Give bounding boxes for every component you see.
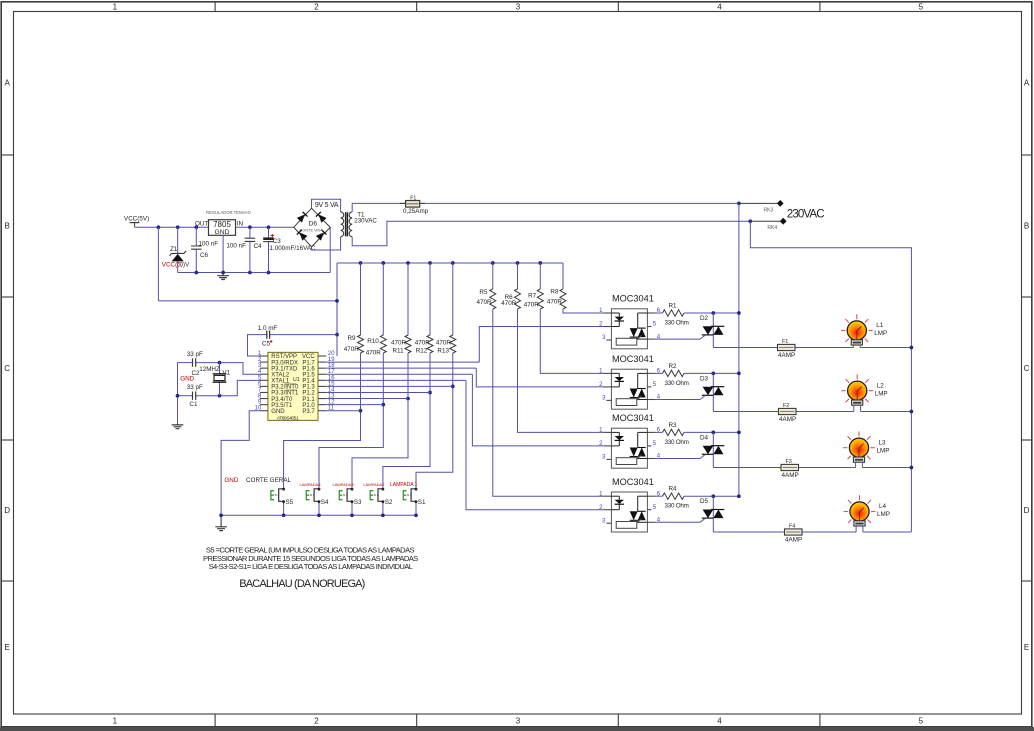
svg-text:L2: L2 (877, 382, 885, 389)
svg-text:330 Ohm: 330 Ohm (665, 439, 689, 446)
svg-text:MOC3041: MOC3041 (612, 354, 654, 364)
svg-text:D: D (4, 506, 10, 515)
svg-text:LAMPADA 1: LAMPADA 1 (390, 482, 418, 488)
svg-text:4AMP: 4AMP (782, 472, 799, 479)
svg-text:RK4: RK4 (767, 225, 777, 231)
svg-text:230VAC: 230VAC (787, 207, 824, 220)
svg-text:LAMPADA3: LAMPADA3 (333, 482, 355, 487)
svg-text:GND: GND (214, 229, 229, 236)
svg-text:GND: GND (271, 409, 285, 415)
svg-text:33 pF: 33 pF (187, 351, 203, 358)
svg-text:GND: GND (224, 477, 238, 484)
svg-text:C: C (4, 364, 10, 373)
svg-text:470R: 470R (524, 301, 540, 308)
svg-text:B: B (1024, 222, 1029, 231)
svg-text:F1: F1 (410, 195, 416, 201)
svg-text:D3: D3 (700, 375, 709, 382)
svg-text:330 Ohm: 330 Ohm (665, 320, 689, 327)
svg-text:4: 4 (717, 717, 722, 726)
svg-text:F4: F4 (789, 524, 795, 530)
svg-text:LAMPADA4: LAMPADA4 (300, 482, 322, 487)
svg-text:U1: U1 (293, 377, 300, 383)
svg-text:5: 5 (919, 2, 924, 11)
svg-text:F3: F3 (786, 459, 792, 465)
svg-text:S2: S2 (385, 499, 393, 506)
svg-text:1: 1 (113, 2, 118, 11)
svg-text:R1: R1 (669, 302, 678, 309)
svg-text:2: 2 (314, 717, 319, 726)
svg-text:100 nF: 100 nF (226, 243, 246, 250)
svg-text:100 nF: 100 nF (199, 240, 219, 247)
svg-text:E: E (5, 643, 10, 652)
svg-text:LAMPADA2: LAMPADA2 (363, 482, 385, 487)
svg-text:9V 5 VA: 9V 5 VA (315, 202, 339, 209)
svg-text:0)V: 0)V (180, 261, 191, 268)
svg-text:S5: S5 (285, 499, 293, 506)
svg-text:470R: 470R (344, 346, 360, 353)
svg-text:S4-S3-S2-S1= LIGA E DESLIGA TO: S4-S3-S2-S1= LIGA E DESLIGA TODAS AS LAM… (209, 562, 413, 571)
svg-text:PONTE W04: PONTE W04 (299, 228, 323, 233)
svg-text:B: B (5, 222, 10, 231)
svg-text:4AMP: 4AMP (778, 352, 795, 359)
svg-text:REGULADOR TENSAO: REGULADOR TENSAO (206, 210, 252, 215)
svg-text:R9: R9 (348, 335, 357, 342)
svg-text:330 Ohm: 330 Ohm (665, 503, 689, 510)
svg-text:R12: R12 (416, 347, 428, 354)
svg-text:S3: S3 (354, 499, 362, 506)
svg-text:*: * (270, 338, 273, 347)
svg-text:5: 5 (919, 717, 924, 726)
svg-text:A: A (1024, 79, 1030, 88)
svg-text:LMP: LMP (877, 447, 890, 454)
svg-text:R2: R2 (669, 363, 678, 370)
svg-text:R7: R7 (528, 292, 537, 299)
svg-text:S4: S4 (321, 499, 329, 506)
svg-text:V1: V1 (222, 369, 230, 376)
svg-text:OUT: OUT (195, 221, 208, 228)
svg-text:C1: C1 (189, 401, 198, 408)
svg-text:470R: 470R (366, 349, 382, 356)
svg-text:F2: F2 (783, 403, 789, 409)
svg-text:MOC3041: MOC3041 (612, 294, 654, 304)
svg-text:A: A (5, 79, 11, 88)
svg-text:P3.7: P3.7 (302, 409, 315, 415)
svg-text:RK3: RK3 (764, 208, 774, 214)
svg-text:33 pF: 33 pF (187, 384, 203, 391)
svg-text:LMP: LMP (874, 330, 887, 337)
svg-text:4AMP: 4AMP (779, 416, 796, 423)
svg-text:7805: 7805 (213, 220, 231, 229)
svg-text:R8: R8 (550, 289, 559, 296)
svg-text:D5: D5 (700, 498, 709, 505)
svg-text:C3: C3 (273, 238, 282, 245)
svg-text:E: E (1024, 643, 1029, 652)
svg-text:470R: 470R (436, 339, 452, 346)
svg-text:4: 4 (717, 2, 722, 11)
svg-text:BACALHAU (DA NORUEGA): BACALHAU (DA NORUEGA) (239, 578, 364, 590)
svg-text:L4: L4 (879, 503, 887, 510)
svg-text:470R: 470R (477, 299, 493, 306)
svg-text:1.000mF/16VAC: 1.000mF/16VAC (270, 245, 317, 252)
svg-text:230VAC: 230VAC (354, 217, 377, 224)
svg-text:R4: R4 (669, 486, 678, 493)
svg-text:R5: R5 (479, 289, 488, 296)
svg-text:D6: D6 (309, 220, 318, 227)
svg-text:4AMP: 4AMP (785, 537, 802, 544)
svg-text:3: 3 (516, 717, 521, 726)
svg-text:470R: 470R (415, 339, 431, 346)
svg-text:1: 1 (113, 717, 118, 726)
svg-text:D4: D4 (700, 434, 709, 441)
svg-text:R13: R13 (437, 347, 449, 354)
svg-text:R11: R11 (393, 347, 405, 354)
svg-text:D2: D2 (700, 315, 709, 322)
svg-text:AT89S4051: AT89S4051 (277, 416, 299, 422)
svg-text:470R: 470R (501, 300, 517, 307)
svg-text:R10: R10 (367, 338, 379, 345)
svg-text:IN: IN (237, 221, 244, 228)
svg-text:MOC3041: MOC3041 (612, 477, 654, 487)
svg-text:CORTE GERAL: CORTE GERAL (246, 477, 292, 484)
svg-text:LMP: LMP (875, 390, 888, 397)
svg-text:C6: C6 (200, 252, 209, 259)
svg-text:470R: 470R (547, 299, 563, 306)
svg-text:GND: GND (180, 376, 194, 383)
svg-text:L3: L3 (879, 439, 887, 446)
svg-text:MOC3041: MOC3041 (612, 413, 654, 423)
svg-text:470R: 470R (391, 339, 407, 346)
svg-text:C: C (1024, 364, 1030, 373)
svg-text:330 Ohm: 330 Ohm (665, 380, 689, 387)
svg-text:F1: F1 (782, 339, 788, 345)
svg-text:1.0 mF: 1.0 mF (258, 325, 278, 332)
svg-text:Z1: Z1 (170, 246, 178, 253)
svg-text:12MHZ: 12MHZ (199, 366, 220, 373)
svg-text:0,25Amp: 0,25Amp (403, 208, 429, 215)
svg-text:D: D (1024, 506, 1030, 515)
svg-text:L1: L1 (876, 322, 884, 329)
svg-text:LMP: LMP (877, 511, 890, 518)
svg-text:S1: S1 (418, 499, 426, 506)
svg-text:C4: C4 (254, 243, 263, 250)
svg-text:2: 2 (314, 2, 319, 11)
svg-text:3: 3 (516, 2, 521, 11)
svg-text:VCC(5V): VCC(5V) (124, 216, 149, 223)
svg-text:R3: R3 (669, 422, 678, 429)
